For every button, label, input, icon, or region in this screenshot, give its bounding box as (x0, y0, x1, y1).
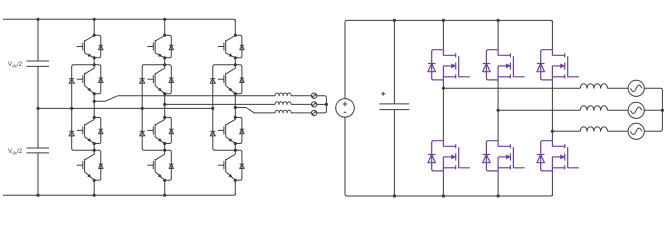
svg-text:Vdc/2: Vdc/2 (8, 148, 23, 155)
svg-text:Vdc/2: Vdc/2 (8, 61, 23, 68)
